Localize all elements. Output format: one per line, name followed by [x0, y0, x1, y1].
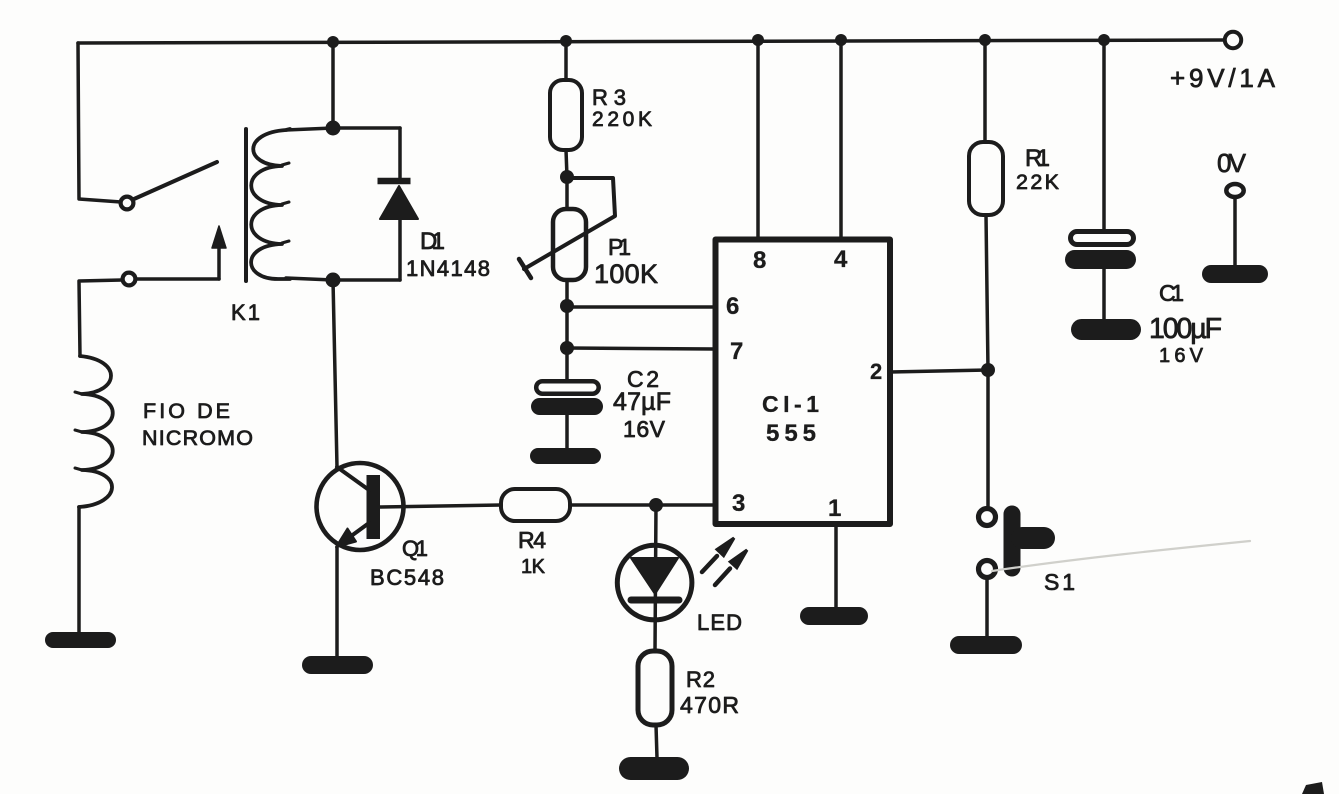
ground (nichrome): [45, 632, 116, 648]
wire relay bottom to diode bottom: [286, 278, 400, 280]
svg-text:1K: 1K: [521, 556, 546, 578]
capacitor C2 plate top: [536, 381, 599, 394]
P1 wiper end tick: [519, 259, 531, 278]
svg-text:7: 7: [730, 338, 743, 365]
ground (C1): [1071, 319, 1141, 340]
switch pivot terminal (relay contact): [121, 197, 134, 210]
capacitor C1 plate top: [1071, 232, 1134, 245]
relay K1 coil: [251, 129, 290, 279]
IC CI-1 555 box: [716, 240, 891, 525]
resistor R3: [550, 80, 582, 150]
resistor R4: [501, 489, 570, 521]
0V terminal: [1226, 184, 1243, 197]
relay actuation arrow: [217, 247, 221, 279]
svg-text:100K: 100K: [594, 259, 658, 289]
svg-text:2: 2: [870, 359, 882, 384]
svg-text:1: 1: [828, 495, 841, 522]
wire Q1 base to R4: [380, 505, 501, 507]
transistor Q1 emitter arrowhead: [336, 529, 356, 548]
ground (Q1 emitter): [302, 656, 373, 674]
node: pin6 junction: [560, 299, 574, 313]
wire left drop to switch: [78, 43, 121, 202]
wire C2 to ground: [565, 415, 569, 449]
switch S1 top terminal: [979, 509, 996, 526]
switch S1 button stem: [1022, 527, 1044, 549]
switch S1 bottom terminal: [979, 561, 996, 578]
wire rail to relay coil top: [331, 42, 335, 127]
wire relay bottom to Q1 collector: [333, 280, 337, 467]
wire pin 1 to ground: [834, 524, 838, 608]
nichrome wire heating coil: [79, 356, 113, 507]
LED circle: [617, 545, 692, 620]
diode D1 triangle: [380, 186, 418, 219]
svg-text:22K: 22K: [1016, 170, 1060, 194]
svg-text:D1: D1: [420, 228, 445, 255]
wire diode branch vertical: [398, 128, 402, 280]
svg-text:C1: C1: [1159, 280, 1184, 306]
svg-text:NICROMO: NICROMO: [142, 426, 253, 450]
resistor R1: [969, 142, 1003, 215]
svg-text:R3: R3: [592, 85, 626, 110]
svg-text:555: 555: [766, 420, 816, 447]
node: pin2 junction: [981, 363, 995, 377]
switch arm: [134, 162, 217, 199]
wire pin 7: [567, 348, 715, 349]
wire +9V top rail: [78, 40, 1224, 43]
ground (pin 1): [800, 607, 868, 625]
resistor R2: [638, 651, 672, 725]
node: relay coil bottom junction: [326, 273, 341, 288]
svg-text:LED: LED: [697, 610, 742, 635]
wire pin 6: [567, 305, 715, 309]
svg-text:Q1: Q1: [402, 536, 428, 561]
capacitor C1 plate bottom: [1065, 250, 1136, 269]
svg-text:47µF: 47µF: [613, 388, 671, 416]
node: rail junction C1: [1098, 34, 1110, 46]
wire junction to P1: [565, 184, 569, 209]
svg-text:16V: 16V: [623, 416, 666, 442]
ground (R2): [619, 757, 689, 780]
svg-text:100µF: 100µF: [1149, 313, 1222, 345]
node: rail junction R3: [560, 35, 572, 47]
ground (S1): [950, 636, 1022, 654]
P1 wiper connection: [524, 178, 615, 269]
transistor Q1 collector stroke: [337, 467, 369, 490]
svg-text:R4: R4: [518, 527, 546, 553]
node: relay coil top junction: [326, 121, 341, 136]
svg-text:3: 3: [732, 490, 745, 517]
wire pin 8: [756, 40, 760, 239]
wire rail to R3: [564, 41, 568, 80]
node: rail junction pin4: [835, 34, 847, 46]
transistor Q1 base bar: [367, 475, 381, 539]
wire junction through LED to R2: [655, 505, 656, 651]
wire R3 to junction: [566, 150, 567, 177]
wire nichrome coil to ground: [77, 507, 81, 633]
svg-text:8: 8: [753, 247, 766, 274]
svg-text:R2: R2: [686, 667, 715, 692]
wire C1 to ground: [1102, 269, 1106, 321]
switch lower terminal: [123, 273, 136, 286]
potentiometer P1 body: [553, 209, 586, 280]
wire S1 to ground: [985, 578, 989, 637]
+9V terminal: [1225, 32, 1241, 48]
capacitor C2 plate bottom: [531, 398, 603, 415]
wire rail to R1: [983, 40, 987, 142]
wire lower terminal to nichrome coil: [79, 280, 122, 356]
svg-text:470R: 470R: [680, 692, 739, 718]
relay K1 core bar: [244, 129, 248, 281]
svg-text:K1: K1: [231, 300, 260, 325]
svg-text:220K: 220K: [592, 108, 652, 131]
switch S1 plunger: [1004, 514, 1021, 568]
svg-text:6: 6: [726, 293, 739, 320]
LED cathode bar: [631, 597, 679, 604]
LED triangle: [631, 558, 678, 594]
wire lower terminal to arrow: [136, 277, 219, 281]
wire P1 to pin6 junction: [565, 280, 569, 306]
svg-text:BC548: BC548: [370, 565, 444, 590]
scan artifact corner mark: [1302, 782, 1324, 794]
svg-text:16V: 16V: [1159, 345, 1204, 367]
node: pin7 junction: [560, 341, 574, 355]
LED light arrow 1: [702, 556, 717, 572]
scan artifact faint curve: [992, 541, 1250, 571]
transistor Q1 emitter stroke: [343, 523, 369, 542]
transistor Q1 circle: [317, 463, 404, 550]
svg-text:0V: 0V: [1217, 148, 1247, 178]
wire rail to C1: [1102, 40, 1106, 229]
wire pin 4: [839, 40, 843, 239]
wire R4 to pin3: [570, 503, 715, 507]
wire Q1 emitter to ground: [335, 547, 339, 656]
svg-text:S1: S1: [1044, 569, 1075, 595]
svg-text:4: 4: [834, 246, 848, 273]
svg-text:FIO DE: FIO DE: [143, 399, 230, 423]
wire junction to C2: [565, 348, 569, 381]
wire relay top to diode top: [286, 128, 400, 130]
node: LED junction: [649, 498, 663, 512]
node: rail junction above relay: [327, 36, 339, 48]
wire R2 to ground: [656, 725, 657, 758]
wire pin2 junction to S1: [986, 370, 990, 508]
svg-text:R1: R1: [1025, 145, 1050, 172]
ground (C2): [530, 448, 601, 464]
wire R1 to pin2 junction: [986, 215, 988, 370]
node: rail junction pin8: [752, 34, 764, 46]
wire pin 2: [890, 370, 988, 372]
node: rail junction R1: [979, 34, 991, 46]
node: R3/P1 junction: [560, 170, 574, 184]
svg-text:1N4148: 1N4148: [406, 256, 490, 281]
diode D1 cathode bar: [378, 178, 411, 185]
wire junctions vertical: [565, 306, 569, 348]
ground (0V): [1202, 265, 1268, 283]
wire 0V to ground: [1233, 197, 1237, 266]
svg-text:P1: P1: [608, 234, 631, 260]
LED light arrow 2: [715, 569, 730, 586]
svg-text:+9V/1A: +9V/1A: [1170, 63, 1276, 93]
